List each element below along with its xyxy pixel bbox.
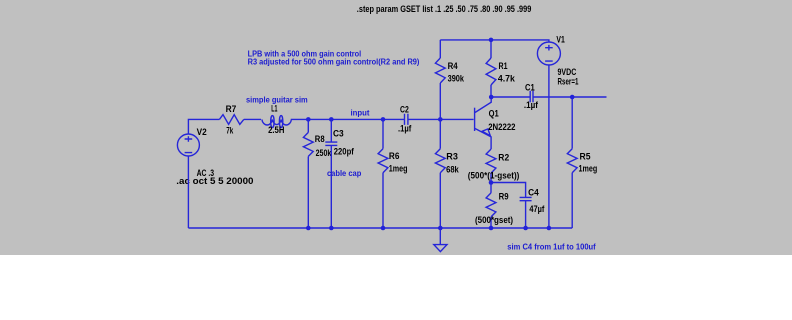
junction: base node bbox=[438, 117, 443, 122]
wire: top rail R4 to V1 bbox=[440, 40, 549, 42]
svg-text:R4: R4 bbox=[448, 61, 458, 71]
capacitor C4 bbox=[520, 187, 546, 228]
svg-text:R2: R2 bbox=[498, 152, 509, 162]
svg-text:.step param GSET list .1 .25 .: .step param GSET list .1 .25 .50 .75 .80… bbox=[357, 4, 532, 14]
resistor R2 bbox=[468, 149, 520, 193]
junction: R1 top bbox=[489, 38, 494, 43]
svg-text:input: input bbox=[351, 108, 370, 117]
svg-text:C1: C1 bbox=[525, 82, 535, 92]
svg-text:V2: V2 bbox=[197, 127, 207, 137]
svg-text:R7: R7 bbox=[226, 104, 237, 114]
svg-text:1meg: 1meg bbox=[389, 164, 408, 174]
svg-text:R3: R3 bbox=[446, 151, 458, 161]
svg-text:47µf: 47µf bbox=[529, 204, 545, 214]
svg-text:C2: C2 bbox=[400, 104, 409, 114]
svg-text:1meg: 1meg bbox=[579, 164, 598, 174]
wire: collector output line bbox=[491, 96, 606, 98]
resistor R9 bbox=[475, 191, 513, 228]
resistor R1 bbox=[486, 40, 516, 97]
svg-text:(500*gset): (500*gset) bbox=[475, 215, 513, 225]
svg-text:.1µf: .1µf bbox=[524, 100, 539, 110]
junction: rail R9 bbox=[489, 226, 494, 231]
svg-text:Rser=1: Rser=1 bbox=[558, 76, 579, 86]
junction: R2/R9 node bbox=[489, 180, 494, 185]
junction: R5 top bbox=[570, 95, 575, 100]
junction: rail V1 bbox=[547, 226, 552, 231]
svg-text:Q1: Q1 bbox=[489, 109, 499, 119]
junction: R6 top bbox=[381, 117, 386, 122]
svg-text:C4: C4 bbox=[528, 187, 539, 197]
transistor Q1 bbox=[475, 97, 516, 149]
svg-text:V1: V1 bbox=[556, 35, 564, 45]
svg-text:2N2222: 2N2222 bbox=[488, 122, 515, 132]
svg-text:R1: R1 bbox=[499, 61, 508, 71]
capacitor C3 bbox=[325, 119, 354, 228]
junction: rail R6 bbox=[381, 226, 386, 231]
voltage source V2 bbox=[177, 127, 214, 178]
svg-text:68k: 68k bbox=[446, 164, 460, 174]
svg-text:R3 adjusted for 500 ohm gain c: R3 adjusted for 500 ohm gain control(R2 … bbox=[248, 58, 420, 67]
voltage source V1 bbox=[537, 35, 578, 87]
wire: V2 bottom to ground rail bbox=[187, 156, 189, 228]
resistor R8 bbox=[303, 119, 332, 228]
svg-text:R9: R9 bbox=[499, 191, 509, 201]
svg-text:.1µf: .1µf bbox=[398, 124, 412, 134]
capacitor C2 bbox=[398, 104, 412, 133]
resistor R5 bbox=[567, 97, 597, 228]
wire: R7 to L1 bbox=[244, 118, 261, 120]
junction: rail C3 bbox=[329, 226, 334, 231]
wire: ground rail bbox=[188, 227, 572, 229]
inductor L1 bbox=[262, 104, 293, 136]
svg-text:250k: 250k bbox=[316, 148, 332, 158]
svg-text:4.7k: 4.7k bbox=[498, 74, 516, 84]
wire: R2/R9 node to C4 bbox=[491, 183, 526, 198]
ground symbol bbox=[434, 228, 447, 252]
junction: rail C4 bbox=[523, 226, 528, 231]
wire: C2 to Q1 base bbox=[408, 118, 474, 120]
svg-text:R5: R5 bbox=[580, 151, 591, 161]
svg-text:(500*(1-gset)): (500*(1-gset)) bbox=[468, 171, 520, 181]
junction: rail R8 bbox=[306, 226, 311, 231]
svg-text:sim C4 from 1uf to 100uf: sim C4 from 1uf to 100uf bbox=[507, 242, 596, 251]
svg-text:2.5H: 2.5H bbox=[268, 125, 284, 135]
resistor R4 bbox=[435, 40, 464, 120]
wire: L1 to C2 (input net) bbox=[293, 118, 405, 120]
resistor R7 bbox=[219, 104, 243, 136]
svg-text:7k: 7k bbox=[226, 126, 234, 136]
wire: V2 top to main line bbox=[188, 119, 219, 134]
resistor R3 bbox=[435, 119, 459, 228]
junction: rail ground node bbox=[438, 226, 443, 231]
svg-text:390k: 390k bbox=[448, 74, 465, 84]
junction: R8 top bbox=[306, 117, 311, 122]
svg-text:cable cap: cable cap bbox=[327, 169, 361, 178]
svg-text:L1: L1 bbox=[271, 104, 277, 114]
svg-text:C3: C3 bbox=[333, 129, 344, 139]
junction: C3 top bbox=[329, 117, 334, 122]
resistor R6 bbox=[378, 119, 407, 228]
wire: V1 bottom to ground rail bbox=[548, 65, 550, 228]
capacitor C1 bbox=[524, 82, 539, 110]
junction: collector node bbox=[489, 95, 494, 100]
svg-text:220pf: 220pf bbox=[334, 147, 355, 157]
svg-text:R8: R8 bbox=[315, 134, 325, 144]
svg-text:R6: R6 bbox=[389, 151, 400, 161]
